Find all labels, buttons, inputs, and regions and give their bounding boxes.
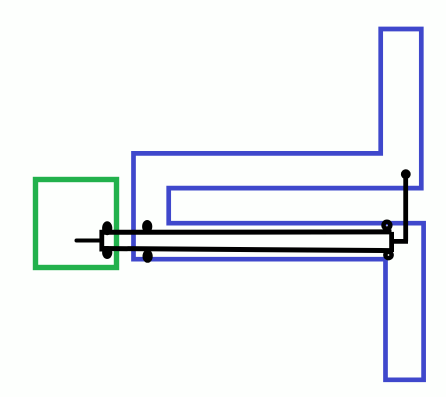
junction dot B top	[142, 220, 152, 233]
wire: left stub into connector	[77, 239, 103, 243]
node dot (top of right vertical)	[401, 169, 411, 179]
junction dot A bottom	[102, 246, 112, 259]
wire: top horizontal bus	[102, 229, 392, 234]
junction dot A top	[102, 221, 112, 235]
green component box	[36, 180, 117, 268]
wire: bottom horizontal bus	[102, 249, 390, 251]
wire: connector vertical bar	[99, 230, 104, 252]
wire: jog vertical joining buses	[389, 232, 394, 252]
open terminal ring (top right)	[384, 222, 391, 229]
open terminal ring (bottom right)	[385, 252, 391, 258]
wire: jog horizontal	[392, 239, 409, 244]
junction dot B bottom	[143, 250, 153, 263]
blue comb-shaped outline (net / shield boundary)	[134, 29, 424, 380]
wire: right vertical drop from node dot	[403, 174, 408, 241]
